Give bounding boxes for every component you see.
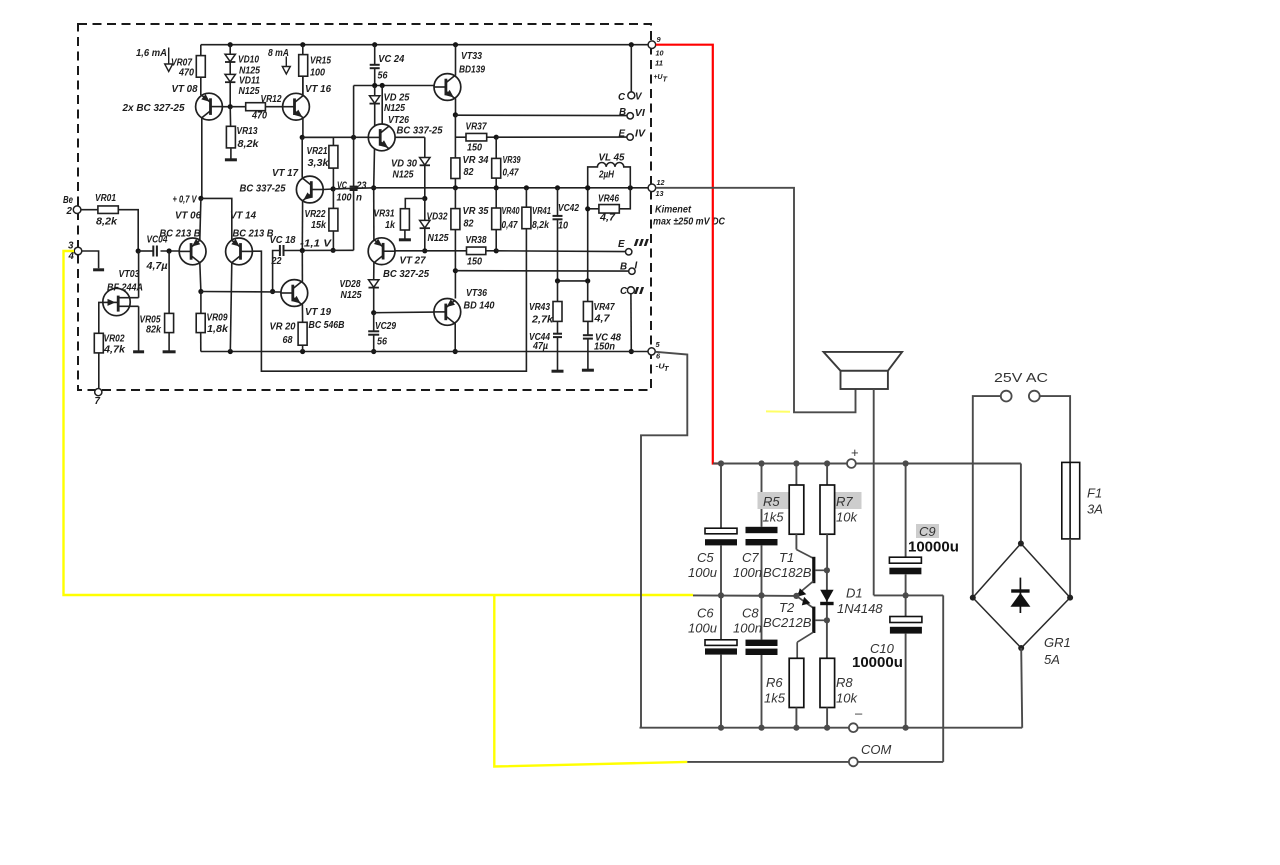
wire VT08 emitter [201, 94, 203, 96]
wire VT33 base line [354, 85, 434, 87]
wire COM riser [942, 595, 944, 762]
svg-text:100u: 100u [688, 565, 717, 580]
node VC24 bottom junction [372, 83, 377, 88]
svg-text:VR09: VR09 [207, 313, 228, 324]
resistor VR35 82 [454, 188, 456, 209]
wire VC24/VT26 line to VT33 base [424, 136, 426, 138]
svg-text:2µH: 2µH [598, 170, 615, 181]
svg-text:82: 82 [464, 167, 474, 178]
capacitor VC18 22 [279, 245, 281, 256]
wire VT03 gate to VR02 [99, 302, 105, 333]
svg-text:E: E [619, 128, 626, 139]
svg-text:VR13: VR13 [237, 126, 258, 137]
wire E III line [496, 250, 625, 253]
resistor VR07 470 [200, 45, 202, 56]
svg-text:VR31: VR31 [374, 209, 395, 220]
resistor VR39 0,47 [495, 137, 497, 158]
svg-text:8,2k: 8,2k [96, 217, 118, 228]
node output rail junctions [453, 185, 458, 190]
svg-text:VT 17: VT 17 [272, 168, 299, 179]
svg-text:10000u: 10000u [908, 539, 959, 556]
resistor VR41 8,2k [525, 188, 527, 207]
ground below VT03 source [133, 350, 144, 353]
svg-text:BC182B: BC182B [763, 565, 812, 580]
wire pin 3/4 to ground [82, 251, 99, 268]
svg-text:68: 68 [283, 335, 293, 346]
svg-text:+: + [851, 445, 859, 460]
svg-text:VD28: VD28 [340, 279, 361, 290]
svg-text:10k: 10k [836, 510, 858, 525]
wire VT33 collector to top rail [455, 45, 457, 76]
svg-text:1N4148: 1N4148 [837, 601, 883, 616]
node VT26 collector junction [380, 83, 385, 88]
wire VT14 collector to -UT rail [230, 263, 232, 352]
diode VD25 N125 [374, 86, 376, 96]
capacitor VC44 47u [553, 333, 562, 335]
svg-text:VC: VC [337, 181, 348, 192]
svg-text:VT 14: VT 14 [230, 211, 257, 222]
pin VI with B marker [627, 113, 633, 119]
svg-text:8,2k: 8,2k [532, 220, 549, 231]
resistor VR34 82 [451, 158, 460, 179]
wire VT33 emitter to pin B VI [455, 114, 626, 116]
svg-text:1,8k: 1,8k [207, 324, 229, 335]
svg-text:n: n [356, 193, 362, 204]
svg-text:0,47: 0,47 [503, 168, 519, 179]
pin 12 13 Kimenet output [648, 184, 656, 192]
capacitor C10 10000u [905, 595, 907, 616]
svg-text:VR37: VR37 [466, 122, 487, 133]
svg-text:C9: C9 [919, 524, 936, 539]
svg-text:15k: 15k [311, 220, 326, 231]
wire red +UT supply [656, 45, 719, 464]
svg-text:BC212B: BC212B [763, 615, 812, 630]
wire AC right to fuse [1040, 396, 1070, 462]
node VC29 bottom on -UT rail [371, 349, 376, 354]
wire B I line [455, 270, 628, 272]
resistor VR02 4,7k [94, 333, 103, 353]
svg-text:VR46: VR46 [598, 194, 619, 205]
svg-text:VT 06: VT 06 [175, 211, 202, 222]
node VT16 emitter junction [300, 135, 305, 140]
svg-text:100n: 100n [733, 621, 762, 636]
svg-text:B: B [619, 107, 626, 118]
svg-text:Be: Be [63, 195, 73, 206]
svg-text:VR38: VR38 [466, 235, 487, 246]
svg-text:C7: C7 [742, 550, 759, 565]
capacitor C9 10000u [905, 464, 907, 558]
wire VT36 emitter to -UT rail [454, 323, 456, 351]
svg-text:100: 100 [337, 193, 352, 204]
node mid rail junctions [718, 592, 724, 598]
svg-text:VD11: VD11 [239, 75, 260, 86]
speaker [824, 352, 903, 371]
transistor VT17 BC 337-25 [296, 176, 323, 203]
svg-text:4,7k: 4,7k [103, 345, 126, 356]
svg-text:VD32: VD32 [427, 212, 448, 223]
svg-text:VR40: VR40 [502, 206, 520, 217]
wire VT33 emitter down [455, 98, 457, 115]
svg-text:82: 82 [464, 219, 474, 230]
transistor VT19 BC 546B [281, 280, 308, 307]
svg-text:1k5: 1k5 [764, 691, 786, 706]
IC module dashed border [78, 24, 651, 390]
wire VT17 collector [301, 137, 303, 178]
node VR37 right junction [494, 135, 499, 140]
svg-text:4,7: 4,7 [599, 213, 616, 224]
svg-text:R5: R5 [763, 494, 780, 509]
node pin II on -UT rail [629, 349, 634, 354]
svg-text:R7: R7 [836, 494, 853, 509]
wire VT08 base [222, 106, 230, 108]
svg-text:max ±250 mV DC: max ±250 mV DC [653, 217, 726, 228]
resistor R8 10k [826, 620, 828, 658]
wire AC left to bridge [973, 396, 1001, 597]
transistor VT36 BD140 [434, 299, 461, 326]
ground at input [93, 268, 104, 271]
wire mid node link [874, 594, 944, 596]
svg-text:23: 23 [356, 181, 367, 192]
node -1,1V VT17/VT19 junction [300, 248, 305, 253]
svg-text:VC 18: VC 18 [270, 235, 297, 246]
wire output to speaker [656, 188, 856, 412]
svg-text:C8: C8 [742, 606, 759, 621]
svg-text:VR02: VR02 [104, 334, 125, 345]
svg-text:VR47: VR47 [594, 302, 615, 313]
svg-text:2x BC 327-25: 2x BC 327-25 [121, 103, 185, 114]
transistor VT27 BC 327-25 [368, 238, 395, 265]
svg-text:T1: T1 [779, 550, 794, 565]
resistor VR12 470 [230, 106, 246, 108]
node VL45 left junctions [585, 185, 590, 190]
diode VD10 N125 [229, 45, 231, 55]
svg-text:VD 30: VD 30 [391, 159, 418, 170]
capacitor C5 100u [720, 464, 722, 529]
pin IV with E marker [627, 134, 633, 140]
wire yellow artifact near output corner [766, 410, 790, 412]
resistor VR05 82k [168, 251, 170, 313]
wire VR34 column from emitter node [454, 115, 456, 158]
svg-text:1,6 mA: 1,6 mA [136, 48, 167, 59]
svg-text:B: B [620, 262, 627, 273]
wire VR37 junction to pin E IV [496, 136, 627, 138]
wire VT03 drain to input node [138, 251, 140, 298]
diode D1 1N4148 [826, 570, 828, 620]
svg-text:1k: 1k [385, 220, 395, 231]
wire VT36 collector column [454, 271, 456, 299]
svg-text:25V AC: 25V AC [994, 370, 1048, 385]
wire +UT top rail [201, 44, 648, 46]
node C9/C10 mid junction [903, 592, 909, 598]
svg-text:BC 337-25: BC 337-25 [240, 184, 287, 195]
wire feedback VR41 to VT14 base [252, 229, 526, 372]
diode VD30 N125 [424, 137, 426, 157]
label highlight C9 [916, 524, 939, 538]
pin I with B marker [629, 268, 635, 274]
svg-text:C6: C6 [697, 606, 714, 621]
node VC18 tap on VT19 base line [270, 289, 275, 294]
wire VT27 collector to VD28 [373, 262, 375, 279]
svg-text:56: 56 [377, 337, 387, 348]
node VR38 right junction [494, 248, 499, 253]
svg-text:2: 2 [66, 206, 73, 217]
svg-text:8,2k: 8,2k [238, 139, 260, 150]
wire VD30 to VR31 tap [424, 166, 426, 199]
capacitor C7 100n [761, 464, 763, 527]
svg-text:5A: 5A [1044, 652, 1060, 667]
capacitor VC24 56 [374, 45, 376, 65]
svg-text:E: E [618, 239, 625, 250]
svg-text:VT36: VT36 [466, 288, 487, 299]
capacitor C6 100u [720, 595, 722, 639]
svg-text:VR 34: VR 34 [463, 155, 490, 166]
resistor VR31 1k [405, 199, 425, 209]
wire VT17 base to VR21/VR22 junction [323, 188, 333, 191]
wire output rail inside IC [333, 188, 374, 189]
svg-text:470: 470 [251, 111, 267, 122]
wire VT19 emitter to VR20 [301, 304, 303, 322]
wire VT06 collector down [200, 263, 201, 292]
svg-text:BC 546B: BC 546B [309, 320, 345, 331]
svg-text:VL 45: VL 45 [599, 153, 626, 164]
svg-text:VI: VI [635, 108, 645, 119]
svg-text:4,7µ: 4,7µ [145, 261, 167, 272]
wire VT14 emitter to +0,7V node [201, 198, 232, 240]
svg-text:11: 11 [655, 59, 663, 68]
svg-text:VT 08: VT 08 [172, 84, 199, 95]
svg-text:82k: 82k [146, 325, 161, 336]
diode VD11 N125 [229, 62, 231, 74]
terminal AC left [1001, 391, 1012, 402]
pin 5 6 -UT [648, 348, 655, 355]
node T2 base junction [824, 617, 830, 623]
svg-text:VR 35: VR 35 [463, 206, 490, 217]
node VT36 emitter on rail [453, 349, 458, 354]
wire VT27 base [395, 250, 425, 252]
svg-text:VR43: VR43 [529, 302, 550, 313]
node minus rail junctions [718, 725, 724, 731]
svg-text:VR15: VR15 [310, 56, 331, 67]
svg-text:N125: N125 [393, 170, 414, 181]
pin III with E marker [626, 249, 632, 255]
svg-text:+ 0,7 V: + 0,7 V [173, 195, 198, 206]
svg-text:150: 150 [467, 257, 482, 268]
transistor VT14 BC213B [226, 238, 253, 265]
node input junction VR01/VT03/VC04 [136, 248, 141, 253]
svg-text:VR21: VR21 [307, 146, 328, 157]
wire VT16 emitter node to VC23 column [302, 136, 353, 138]
svg-text:150: 150 [467, 143, 482, 154]
wire VT26 base right branch [395, 136, 425, 138]
svg-text:Kimenet: Kimenet [655, 205, 692, 216]
svg-text:4,7: 4,7 [593, 314, 610, 325]
wire VT17 emitter down to -1,1V node [301, 201, 303, 251]
pin II with C marker [627, 287, 634, 294]
svg-text:12: 12 [657, 178, 666, 187]
svg-text:BD 140: BD 140 [464, 301, 496, 312]
svg-text:0,47: 0,47 [502, 220, 518, 231]
node VD28 bottom junction [371, 310, 376, 315]
label highlight R5 [758, 492, 789, 509]
svg-text:C5: C5 [697, 550, 714, 565]
resistor VR21 3,3k [332, 137, 334, 145]
ground below VR13 [225, 158, 237, 161]
capacitor VC42 10 [557, 188, 559, 216]
capacitor C8 100n [761, 595, 763, 639]
resistor VR40 0,47 [495, 188, 497, 208]
svg-text:10: 10 [558, 220, 568, 231]
resistor VR46 4,7 [587, 188, 589, 281]
svg-text:47µ: 47µ [532, 341, 548, 352]
wire VR02 to pin 7 [98, 353, 100, 389]
svg-text:VR01: VR01 [95, 193, 116, 204]
wire VT03 source to ground [138, 306, 140, 350]
svg-text:2,7k: 2,7k [531, 315, 554, 326]
node T1 base junction [824, 567, 830, 573]
svg-text:BF 244A: BF 244A [107, 283, 143, 294]
wire yellow to COM [494, 595, 687, 767]
wire VC23 column to VT26 base [354, 136, 369, 138]
wire plus rail [713, 463, 847, 465]
svg-text:R8: R8 [836, 675, 853, 690]
svg-text:T2: T2 [779, 600, 795, 615]
svg-text:III: III [634, 238, 649, 249]
svg-text:BC 327-25: BC 327-25 [383, 269, 430, 280]
node -UT rail junctions [228, 349, 233, 354]
svg-text:56: 56 [378, 71, 388, 82]
svg-text:10000u: 10000u [852, 654, 903, 671]
capacitor VC29 56 [373, 313, 375, 332]
pin 7 [95, 389, 102, 396]
svg-text:C: C [620, 286, 628, 297]
svg-text:13: 13 [656, 189, 665, 198]
capacitor VC48 150n [583, 334, 593, 336]
svg-text:VC 24: VC 24 [378, 54, 405, 65]
svg-text:VR41: VR41 [532, 206, 551, 217]
wire VT26 collector up [381, 86, 383, 125]
node VT06 collector junction [198, 289, 203, 294]
resistor R5 1k5 [795, 464, 797, 486]
node VT17 base junction [331, 186, 336, 191]
resistor VR38 150 [426, 250, 467, 252]
svg-text:VR12: VR12 [261, 94, 282, 105]
resistor VR37 150 [455, 136, 466, 138]
resistor R6 1k5 [789, 658, 804, 707]
wire VT27 emitter up to rail [373, 188, 375, 240]
node VT33 emitter junction [453, 112, 458, 117]
transistor VT26 BC 337-25 [368, 124, 395, 151]
svg-text:VT 16: VT 16 [305, 84, 332, 95]
fuse F1 3A [1069, 462, 1071, 539]
svg-text:VT03: VT03 [119, 269, 140, 280]
bridge rectifier GR1 5A [973, 544, 1070, 649]
transistor VT33 BD139 [434, 74, 461, 101]
wire bridge bottom to minus rail [1021, 648, 1022, 728]
transistor VT03 BF 244A JFET [103, 288, 130, 315]
wire -UT rail inside IC [201, 351, 648, 353]
svg-text:C: C [618, 92, 626, 103]
transistor T1 BC182B [796, 550, 813, 559]
svg-text:3A: 3A [1087, 502, 1103, 517]
resistor R7 10k [826, 464, 828, 486]
wire VT06 emitter to +0,7V [200, 198, 201, 240]
svg-text:VT33: VT33 [461, 51, 482, 62]
diode VD28 N125 [369, 280, 379, 288]
svg-text:VC29: VC29 [375, 321, 396, 332]
svg-text:VT 19: VT 19 [305, 307, 332, 318]
diode VD32 N125 [424, 199, 426, 221]
svg-text:7: 7 [95, 396, 101, 407]
svg-text:VT 27: VT 27 [400, 256, 427, 267]
transistor T2 BC212B [796, 596, 813, 608]
wire VT16 collector to VR15 [302, 76, 304, 95]
wire VR01 to input node [118, 210, 138, 251]
svg-text:1k5: 1k5 [763, 510, 785, 525]
node VT08 base / diode chain [228, 104, 233, 109]
svg-text:N125: N125 [384, 103, 405, 114]
node VC23 column crossing [351, 135, 356, 140]
svg-text:470: 470 [178, 68, 194, 79]
svg-text:F1: F1 [1087, 486, 1102, 501]
node VR43 top [555, 278, 560, 283]
svg-text:-1,1 V: -1,1 V [300, 239, 333, 250]
transistor VT06 BC 213 B [179, 238, 206, 265]
wire COM line [687, 761, 849, 763]
wire minus rail [640, 727, 850, 729]
svg-text:100n: 100n [733, 565, 762, 580]
svg-text:100: 100 [310, 68, 325, 79]
resistor VR15 100 [302, 45, 304, 55]
svg-text:10k: 10k [836, 691, 858, 706]
capacitor VC04 4,7u [138, 250, 153, 252]
svg-text:VR 20: VR 20 [270, 322, 297, 333]
svg-text:II: II [634, 286, 644, 297]
svg-text:COM: COM [861, 742, 892, 757]
terminal plus [847, 459, 856, 468]
svg-text:VC42: VC42 [558, 203, 579, 214]
svg-text:VR39: VR39 [503, 155, 521, 166]
svg-text:BC 213 B: BC 213 B [160, 229, 201, 240]
resistor VR09 1,8k [200, 292, 202, 314]
node VR22 bottom junction [331, 248, 336, 253]
terminal minus [849, 723, 858, 732]
resistor VR47 4,7 [587, 281, 589, 302]
svg-text:3,3k: 3,3k [308, 158, 330, 169]
wire VT36 base line [374, 311, 434, 314]
svg-text:IV: IV [635, 129, 647, 140]
wire -UT to minus rail [641, 352, 687, 728]
svg-text:VD10: VD10 [238, 55, 259, 66]
transistor VT08 2x BC 327-25 [196, 93, 223, 120]
wire pin II to -UT rail [630, 294, 632, 352]
resistor VR01 8,2k [81, 209, 98, 211]
svg-text:N125: N125 [428, 233, 449, 244]
svg-text:GR1: GR1 [1044, 635, 1071, 650]
ground below VC44 [552, 370, 564, 373]
node VC04 right / VR05 tap [167, 248, 172, 253]
svg-text:R6: R6 [766, 675, 783, 690]
resistor VR22 15k [332, 189, 334, 208]
svg-text:VR22: VR22 [305, 209, 326, 220]
pin V with C marker [630, 45, 632, 92]
terminal COM [849, 758, 858, 767]
svg-text:D1: D1 [846, 586, 863, 601]
node plus rail junctions [718, 460, 724, 466]
wire VC18 left to VT19 base line [273, 251, 280, 292]
svg-text:BD139: BD139 [459, 65, 485, 76]
wire VT08 collector to +0,7V node [201, 118, 203, 199]
node VR47 top [585, 278, 590, 283]
